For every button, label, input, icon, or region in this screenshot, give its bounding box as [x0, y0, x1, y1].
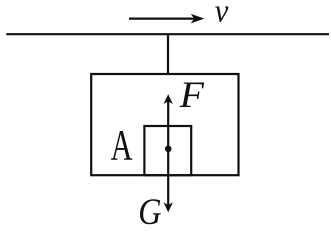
- hanger wire: [167, 33, 169, 75]
- center dot: [165, 146, 172, 153]
- svg-text:A: A: [111, 122, 133, 170]
- force line through dot: [167, 100, 169, 206]
- outer box: [91, 74, 238, 175]
- svg-text:F: F: [179, 75, 205, 115]
- svg-text:G: G: [138, 192, 161, 228]
- svg-text:v: v: [215, 0, 229, 29]
- force arrow F head (up): [164, 94, 173, 104]
- weight arrow G head (down): [164, 202, 173, 212]
- velocity arrow head: [191, 14, 205, 24]
- velocity arrow v shaft: [129, 18, 196, 20]
- block A box: [144, 126, 191, 175]
- ceiling line: [6, 33, 329, 35]
